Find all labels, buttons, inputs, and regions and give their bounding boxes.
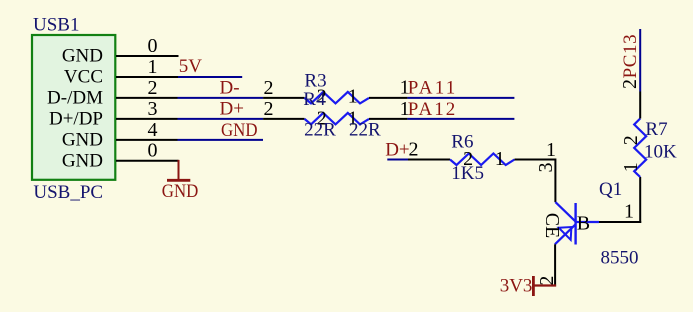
- svg-text:22R: 22R: [349, 119, 381, 140]
- svg-text:GND: GND: [62, 46, 103, 67]
- ground port drop wire: [178, 160, 180, 180]
- resistor R3 body: [305, 92, 370, 104]
- svg-text:D+: D+: [220, 98, 244, 119]
- pin 0b line: [116, 160, 179, 162]
- svg-text:C: C: [541, 213, 563, 226]
- transistor Q1 emitter arrow: [559, 227, 572, 240]
- svg-text:GND: GND: [162, 181, 199, 202]
- power port 3V3 bar: [532, 276, 535, 296]
- svg-text:2: 2: [264, 77, 274, 99]
- svg-text:4: 4: [148, 119, 158, 141]
- transistor Q1 base stub: [576, 221, 599, 223]
- svg-text:R7: R7: [645, 119, 667, 140]
- resistor R4 body: [305, 113, 370, 125]
- svg-text:USB1: USB1: [33, 15, 79, 36]
- svg-text:5V: 5V: [179, 56, 203, 77]
- resistor R4 pin2: [263, 118, 304, 120]
- resistor R6 body: [450, 154, 515, 166]
- pin 3 line: [116, 118, 178, 120]
- resistor R6 pin2: [408, 159, 450, 161]
- svg-text:2: 2: [264, 98, 274, 120]
- svg-text:VCC: VCC: [64, 67, 103, 88]
- svg-text:D+/DP: D+/DP: [49, 109, 103, 130]
- pin 2 line: [116, 97, 178, 99]
- svg-text:3: 3: [535, 163, 557, 173]
- svg-text:D-/DM: D-/DM: [47, 88, 103, 109]
- wire Q1 emitter down: [554, 244, 556, 286]
- wire emitter to 3V3: [534, 284, 556, 286]
- svg-text:3: 3: [148, 98, 158, 120]
- transistor Q1 emitter diagonal: [555, 224, 576, 244]
- ground bar: [167, 179, 190, 182]
- wire PA12: [407, 118, 514, 120]
- svg-text:1: 1: [546, 139, 556, 161]
- wire PC13: [639, 29, 641, 92]
- svg-text:E: E: [541, 226, 563, 238]
- svg-text:D+: D+: [385, 139, 409, 160]
- resistor R3 pin1: [369, 97, 407, 99]
- svg-text:0: 0: [148, 35, 158, 57]
- transistor Q1 base bar: [574, 203, 576, 245]
- svg-text:8550: 8550: [601, 248, 639, 269]
- svg-text:1: 1: [620, 162, 642, 172]
- wire PA11: [407, 97, 514, 99]
- svg-text:2: 2: [409, 139, 419, 161]
- wire D+ stub: [387, 159, 408, 161]
- svg-text:PA11: PA11: [408, 78, 456, 99]
- resistor R7 pin2: [639, 92, 641, 119]
- wire D-: [178, 97, 264, 99]
- svg-text:GND: GND: [221, 120, 258, 141]
- svg-text:1: 1: [348, 86, 358, 108]
- svg-text:10K: 10K: [644, 141, 677, 162]
- wire D+: [178, 118, 264, 120]
- wire R6 to Q1 collector: [554, 159, 556, 203]
- svg-text:1: 1: [624, 200, 634, 222]
- svg-text:1: 1: [495, 148, 505, 170]
- svg-text:Q1: Q1: [599, 179, 622, 200]
- resistor R7 body (vertical): [634, 119, 646, 178]
- transistor Q1 collector diagonal: [555, 202, 575, 222]
- svg-text:22R: 22R: [304, 119, 336, 140]
- wire 5V: [178, 76, 242, 78]
- svg-text:GND: GND: [62, 150, 103, 171]
- connector USB1 body: [32, 35, 115, 180]
- pin 4 line: [116, 139, 178, 141]
- svg-text:1: 1: [148, 56, 158, 78]
- svg-text:B: B: [577, 213, 590, 235]
- pin 0 line: [116, 55, 179, 57]
- resistor R6 pin1: [515, 159, 556, 161]
- wire GND net: [178, 139, 264, 141]
- svg-text:GND: GND: [62, 130, 103, 151]
- svg-text:2: 2: [463, 148, 473, 170]
- svg-text:D-: D-: [220, 77, 240, 98]
- resistor R4 pin1: [369, 118, 407, 120]
- resistor R3 pin2: [263, 97, 304, 99]
- pin 1 line: [116, 76, 178, 78]
- svg-text:0: 0: [148, 140, 158, 162]
- svg-text:2: 2: [536, 276, 558, 286]
- svg-text:2: 2: [620, 135, 642, 145]
- svg-text:2PC13: 2PC13: [619, 34, 641, 89]
- wire corner up to R7: [639, 177, 641, 223]
- svg-text:USB_PC: USB_PC: [33, 182, 103, 203]
- svg-text:3V3: 3V3: [500, 276, 533, 297]
- wire Q1 base to R7: [599, 221, 641, 223]
- svg-text:PA12: PA12: [408, 99, 456, 120]
- svg-text:2: 2: [148, 77, 158, 99]
